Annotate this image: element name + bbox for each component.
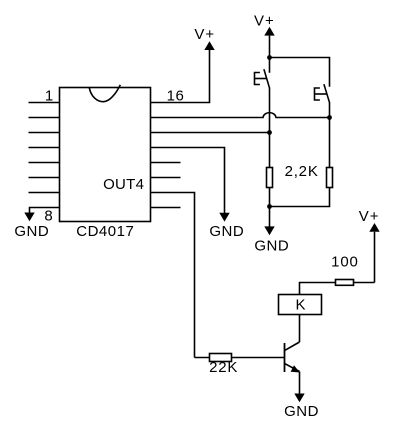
pin stub bbox=[151, 207, 181, 209]
transistor Q1 bbox=[285, 342, 300, 373]
wire base bbox=[195, 357, 285, 359]
resistor R4 22K bbox=[210, 354, 232, 362]
wire S2 down bbox=[329, 103, 331, 168]
svg-text:GND: GND bbox=[284, 403, 319, 420]
pin 5 wire bbox=[29, 162, 60, 164]
svg-text:16: 16 bbox=[167, 87, 185, 104]
pin 2 wire bbox=[29, 117, 60, 119]
svg-text:K: K bbox=[295, 297, 305, 314]
node junction gnd bbox=[267, 204, 272, 209]
pin 4 wire bbox=[29, 147, 60, 149]
switch S1 push button bbox=[255, 58, 270, 89]
switch S2 push button bbox=[315, 84, 330, 103]
resistor R3 100 bbox=[336, 280, 354, 286]
wire V+ to S2 bbox=[270, 58, 330, 87]
pin 8 wire bbox=[30, 208, 60, 214]
svg-text:V+: V+ bbox=[254, 12, 275, 29]
svg-text:V+: V+ bbox=[194, 26, 215, 43]
relay K coil bbox=[279, 295, 322, 315]
wire pin15 to switches with hop bbox=[151, 113, 330, 118]
svg-text:GND: GND bbox=[14, 223, 49, 240]
wire R2 bottom bbox=[270, 188, 330, 207]
svg-text:2,2K: 2,2K bbox=[285, 163, 319, 180]
svg-text:V+: V+ bbox=[359, 208, 380, 225]
wire R3 to relay bbox=[300, 283, 336, 295]
node junction pin14 bbox=[267, 130, 272, 135]
pin 16 wire bbox=[151, 50, 210, 103]
ground emitter bbox=[284, 394, 319, 421]
power V+ top bbox=[254, 12, 275, 57]
ground pin 8 bbox=[14, 213, 49, 240]
ground switches bbox=[254, 207, 289, 255]
svg-text:22K: 22K bbox=[209, 359, 238, 376]
pin stub bbox=[151, 177, 181, 179]
resistor R2 2,2K right bbox=[327, 168, 333, 188]
pin 3 wire bbox=[29, 132, 60, 134]
svg-text:1: 1 bbox=[45, 87, 53, 104]
resistor R1 2,2K left bbox=[267, 168, 273, 188]
svg-text:CD4017: CD4017 bbox=[76, 223, 134, 240]
svg-text:GND: GND bbox=[254, 237, 289, 254]
pin 7 wire bbox=[29, 192, 60, 194]
svg-text:100: 100 bbox=[331, 254, 358, 271]
wire emitter down bbox=[299, 372, 301, 395]
IC U1 CD4017 body bbox=[60, 85, 151, 222]
node junction pin15 bbox=[327, 115, 332, 120]
ground middle bbox=[209, 213, 244, 240]
node junction V+ bbox=[267, 55, 272, 60]
wire V+ to R3 bbox=[354, 282, 375, 284]
svg-text:GND: GND bbox=[209, 223, 244, 240]
wire OUT4 down to base resistor bbox=[151, 193, 195, 358]
wire R1 bottom bbox=[269, 188, 271, 207]
pin 6 wire bbox=[29, 177, 60, 179]
power V+ pin16 bbox=[194, 26, 215, 50]
svg-text:OUT4: OUT4 bbox=[103, 176, 144, 193]
wire relay to collector bbox=[299, 315, 301, 343]
wire pin14 to S1 bbox=[151, 132, 270, 134]
pin 1 wire bbox=[29, 102, 60, 104]
power V+ relay bbox=[359, 208, 380, 283]
wire pin13 to ground bbox=[151, 148, 225, 214]
wire S1 down bbox=[269, 88, 271, 168]
pin stub bbox=[151, 162, 181, 164]
